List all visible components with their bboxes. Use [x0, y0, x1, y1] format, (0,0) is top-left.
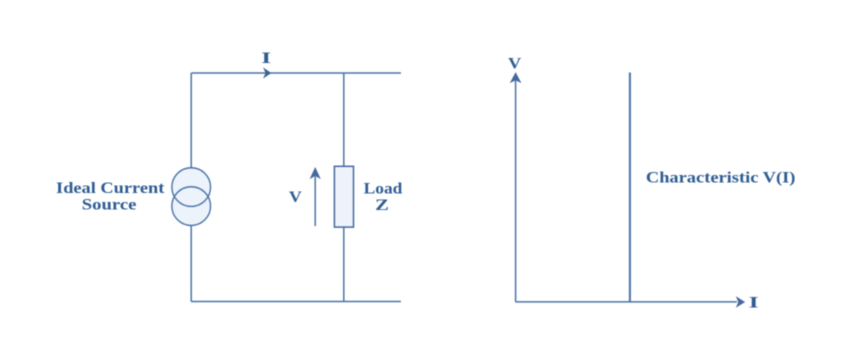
svg-text:I: I	[261, 49, 271, 67]
wire: left vertical bottom	[190, 225, 192, 301]
label Load Z	[364, 180, 403, 213]
characteristic V(I) line (constant current)	[629, 73, 631, 302]
svg-text:Load: Load	[364, 180, 403, 197]
load Z (impedance rectangle)	[334, 166, 353, 227]
wire: bottom return	[191, 301, 401, 303]
svg-text:Ideal Current: Ideal Current	[56, 180, 165, 197]
graph: I axis (horizontal)	[516, 301, 737, 303]
current source symbol (two overlapping circles)	[172, 168, 211, 226]
svg-text:Source: Source	[82, 197, 137, 214]
wire: top node (source to load)	[191, 72, 401, 74]
wire: load branch bottom	[343, 227, 345, 301]
graph: V axis arrowhead	[511, 73, 520, 82]
svg-text:V: V	[508, 55, 522, 73]
svg-text:Z: Z	[375, 196, 389, 213]
graph: I axis arrowhead	[737, 298, 744, 307]
label Ideal Current Source	[56, 180, 165, 214]
wire: left vertical top	[190, 73, 192, 168]
svg-text:V: V	[289, 188, 302, 206]
wire: load branch top	[343, 73, 345, 166]
voltage arrow V (head)	[311, 168, 320, 178]
current arrow I head	[264, 69, 270, 77]
svg-text:I: I	[749, 293, 759, 311]
graph: V axis (vertical)	[515, 80, 517, 302]
voltage arrow V (shaft)	[314, 177, 316, 227]
svg-text:Characteristic V(I): Characteristic V(I)	[646, 169, 796, 186]
